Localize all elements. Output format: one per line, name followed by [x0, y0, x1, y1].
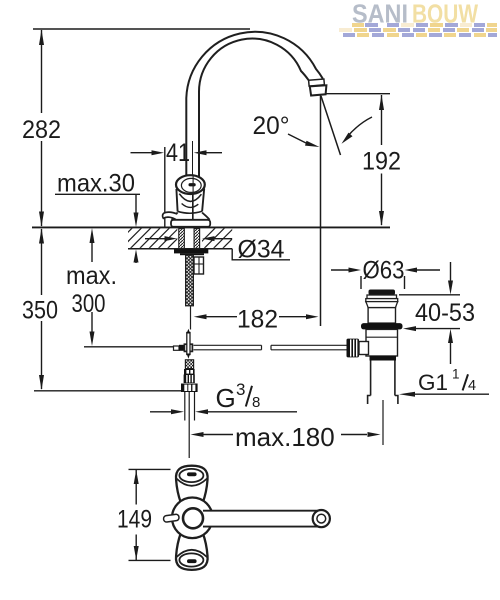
logo brick row 1	[352, 23, 497, 27]
svg-text:Ø63: Ø63	[363, 257, 405, 285]
arrowheads	[39, 30, 453, 561]
handle skirt smile lower	[182, 204, 199, 208]
max.30 arrow down	[134, 213, 139, 228]
svg-text:Ø34: Ø34	[238, 236, 285, 264]
drain flange top	[366, 299, 398, 302]
bottom handle rim arc	[176, 550, 207, 557]
drain flange trumpet	[366, 302, 398, 308]
svg-text:max.180: max.180	[235, 422, 335, 452]
350 arrow top	[39, 228, 44, 243]
drain bottom band	[370, 356, 397, 361]
hose side block inner line	[198, 257, 200, 274]
drain upper body	[368, 308, 395, 324]
hose side block	[194, 257, 204, 274]
logo SANI BOUW	[352, 0, 479, 28]
O34 arrow right	[202, 236, 215, 241]
supply pipe centerline below nut	[188, 392, 190, 458]
locking nut lower	[180, 253, 204, 255]
supply pipe walls below nut	[184, 392, 186, 421]
tee fitting dark block	[179, 345, 184, 351]
top view handle body bottom	[176, 533, 208, 570]
top view left pin	[163, 514, 179, 522]
O34 arrow left tail	[145, 238, 166, 239]
max.300 arrow line top	[91, 241, 93, 262]
max.300 arrow line bottom	[91, 312, 93, 333]
handle top oval	[176, 175, 205, 194]
40-53 top line	[399, 294, 460, 296]
149 arrow top	[134, 470, 139, 484]
O63 extension line right	[404, 276, 406, 289]
locking nut	[174, 249, 208, 253]
drain body divider	[366, 336, 398, 338]
149 extension line bottom	[129, 559, 171, 561]
drain knob cap	[369, 290, 396, 296]
182 arrow left	[194, 314, 207, 319]
20 degree arc arrowhead	[342, 133, 353, 144]
braided hose	[186, 255, 194, 306]
spout tube inner wall	[199, 39, 309, 178]
G3-8 dimension left tail	[150, 411, 172, 413]
horizontal rod segment A	[194, 345, 262, 350]
dimension O63 left tail	[331, 269, 349, 271]
deck bottom line	[128, 248, 232, 250]
pop-up rod wire	[190, 306, 192, 330]
svg-text:8: 8	[252, 394, 260, 411]
svg-text:3: 3	[236, 380, 245, 399]
192 arrow bottom	[379, 211, 384, 226]
dimension 282 vertical line	[41, 30, 43, 113]
top reference line	[33, 28, 250, 30]
max.180 line left	[203, 434, 233, 436]
svg-text:max.30: max.30	[57, 170, 135, 198]
dimension 350 vertical line	[41, 229, 43, 295]
top view center circle	[172, 498, 213, 539]
350 arrow bottom	[39, 375, 44, 390]
handle bell flare	[172, 213, 210, 220]
max.30 arrow up	[134, 249, 139, 262]
drain centerline extension	[382, 400, 384, 445]
O34 label box	[232, 249, 290, 260]
checker block	[185, 360, 193, 369]
282 arrow top	[39, 30, 44, 46]
handle indicator slot	[189, 183, 196, 186]
logo brick row 2	[339, 28, 497, 32]
spout tip top reference line	[326, 93, 390, 95]
dimension 182 line left	[207, 316, 238, 318]
top view spout tube	[203, 511, 318, 527]
faucet centerline	[192, 141, 194, 227]
handle top oval inner ring	[181, 178, 201, 192]
handle body bottom curve	[178, 211, 203, 213]
deck hatch right	[195, 228, 243, 249]
hose side block divider	[194, 263, 204, 265]
max.30 underline	[55, 193, 140, 195]
top view spout boss ring	[183, 508, 203, 528]
192 arrow top	[379, 95, 384, 110]
shank thread band left	[179, 228, 185, 249]
svg-text:1: 1	[452, 367, 460, 382]
40-53 arrow line top	[450, 262, 452, 281]
40-53 arrow line bottom	[450, 342, 452, 364]
40-53 line arrow at drain	[403, 326, 416, 331]
svg-text:max.: max.	[66, 262, 117, 290]
dimension 182 line right	[279, 316, 306, 318]
handle skirt smile upper	[179, 194, 201, 202]
top view handle bottom face	[179, 553, 203, 566]
O34 arrow left	[165, 236, 178, 241]
20 degree flow line	[321, 96, 341, 155]
supply wide nut C	[181, 384, 198, 393]
dimension 41 line left tail	[131, 152, 153, 154]
hook lever	[163, 212, 178, 220]
spout tube outer wall	[186, 32, 322, 178]
dimension 41 line right tail	[206, 152, 222, 154]
41 arrow right	[194, 150, 207, 155]
dimension 149 vertical line	[135, 470, 137, 505]
182 arrow right	[306, 314, 319, 319]
rod knob neck	[359, 342, 369, 355]
handle side body	[176, 189, 204, 212]
hose end reference line	[84, 346, 174, 348]
max.180 line right	[341, 434, 367, 436]
rod knurl knob	[347, 339, 360, 358]
40-53 bottom line	[416, 328, 460, 330]
aerator joint band	[309, 79, 325, 86]
svg-text:282: 282	[22, 116, 61, 144]
logo brick row 3	[343, 33, 497, 37]
svg-text:20°: 20°	[253, 112, 290, 140]
41 arrow left	[152, 150, 165, 155]
dimension 192 vertical line	[381, 95, 383, 145]
deck hatch left	[112, 228, 188, 249]
shank thread band right	[194, 228, 200, 249]
max.180 arrow right	[368, 432, 381, 437]
svg-text:G: G	[216, 383, 236, 413]
aerator collar	[310, 85, 327, 95]
149 extension line top	[129, 468, 171, 470]
svg-text:40-53: 40-53	[415, 299, 475, 327]
O63 arrow left	[349, 268, 362, 273]
svg-text:182: 182	[237, 306, 278, 334]
282 arrow bottom	[39, 212, 44, 227]
svg-text:41: 41	[166, 139, 190, 167]
20 degree leader line	[288, 134, 307, 144]
max.30 arrow line bottom	[135, 259, 137, 263]
svg-text:300: 300	[72, 290, 106, 318]
149 arrow bottom	[134, 546, 139, 560]
G3-8 arrow right	[195, 409, 208, 414]
handle centerline overlay	[192, 176, 194, 220]
max.300 arrow up	[90, 228, 95, 243]
drain lower body	[366, 329, 398, 356]
top view spout end cap outer	[313, 510, 330, 527]
G3-8 dimension right tail	[207, 411, 297, 413]
O34 arrow right tail	[213, 238, 232, 239]
horizontal rod segment B	[271, 345, 347, 350]
drain tailpiece	[368, 361, 398, 405]
tee fitting left cap	[174, 346, 180, 350]
G1 1-4 underline	[413, 393, 489, 395]
svg-text:192: 192	[362, 148, 401, 176]
handle base plate	[171, 220, 210, 227]
water stream vertical line	[320, 96, 322, 327]
G1 1-4 arrow	[399, 392, 415, 397]
tee vertical pin	[187, 329, 191, 359]
20 degree leader arrowhead	[305, 141, 320, 147]
G3-8 arrow left	[171, 409, 184, 414]
top view 149 drawing: handle body top	[176, 466, 208, 503]
max.30 arrow line top	[135, 195, 137, 214]
max.300 arrow down	[90, 332, 95, 347]
top view spout end cap inner	[317, 514, 326, 523]
drain o-ring	[361, 323, 403, 329]
dimension O63 right tail	[416, 269, 440, 271]
top view handle top face	[179, 469, 203, 482]
supply knurl B	[184, 375, 195, 384]
svg-text:4: 4	[468, 378, 476, 394]
svg-text:G1: G1	[418, 370, 448, 395]
top handle rim arc	[176, 479, 207, 486]
supply nut A	[184, 369, 195, 375]
tee clamp block	[184, 344, 192, 351]
drain knob band	[367, 295, 397, 299]
O63 arrow right	[405, 268, 418, 273]
svg-text:350: 350	[22, 297, 58, 325]
41 extension line left	[164, 147, 166, 227]
40-53 arrow top	[448, 281, 453, 295]
max.180 arrow left	[191, 432, 204, 437]
350 bottom reference line	[34, 390, 181, 392]
deck reference line	[32, 226, 390, 228]
20 degree arc arrow	[347, 117, 372, 137]
O63 extension line left	[360, 276, 362, 289]
svg-text:149: 149	[117, 506, 152, 534]
40-53 arrow bottom	[448, 329, 453, 343]
